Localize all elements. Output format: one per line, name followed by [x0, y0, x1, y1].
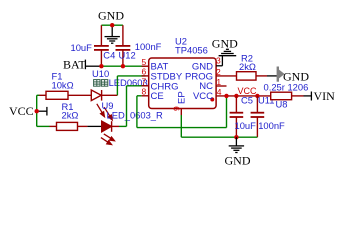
- svg-text:5: 5: [142, 57, 147, 67]
- wire U9 cathode to CHRG: [112, 125, 119, 127]
- junction bottom GND: [234, 135, 238, 139]
- svg-text:8: 8: [142, 87, 147, 97]
- svg-text:U12: U12: [119, 50, 136, 61]
- svg-text:GND: GND: [212, 36, 238, 50]
- svg-text:7: 7: [142, 77, 147, 87]
- junction BAT/C4: [99, 64, 103, 68]
- svg-text:1: 1: [216, 77, 221, 87]
- LED U10 arrows: [97, 104, 112, 120]
- svg-text:BAT: BAT: [63, 58, 86, 72]
- svg-text:9: 9: [172, 106, 182, 111]
- svg-text:4: 4: [217, 87, 222, 97]
- svg-text:LED_0603_R: LED_0603_R: [107, 109, 164, 120]
- svg-text:GND: GND: [225, 154, 251, 168]
- svg-text:3: 3: [216, 55, 221, 65]
- resistor F1: [46, 91, 68, 99]
- LED U10 (green): [91, 90, 101, 101]
- wire R1 to U9 (black): [87, 125, 101, 127]
- junction top gnd: [110, 23, 114, 27]
- label U10 value 绿色LED0603: [94, 80, 108, 87]
- svg-text:0.25r 1206: 0.25r 1206: [264, 81, 309, 92]
- pin 3 GND stub wire (black): [216, 65, 222, 67]
- svg-text:10uF: 10uF: [235, 120, 257, 131]
- resistor R2: [237, 72, 257, 80]
- svg-text:2kΩ: 2kΩ: [239, 61, 256, 72]
- svg-text:U8: U8: [276, 99, 288, 110]
- svg-text:100nF: 100nF: [258, 120, 285, 131]
- ground symbol bottom (earth): [229, 137, 244, 152]
- IC U2 TP4056 body: [149, 58, 216, 109]
- wire U10 cathode to STDBY: [102, 94, 118, 96]
- svg-text:VCC: VCC: [193, 91, 213, 102]
- capacitor U11 plates: [251, 112, 265, 114]
- capacitor U12 plates: [116, 45, 131, 47]
- junction VCC port: [35, 109, 39, 113]
- capacitor C5 plates: [230, 112, 244, 114]
- svg-text:EP: EP: [177, 91, 188, 104]
- pin 6 STDBY stub: [142, 75, 149, 77]
- pin 2 PROG wire: [216, 75, 236, 77]
- svg-text:VIN: VIN: [314, 89, 336, 103]
- wire BAT net: [100, 65, 146, 67]
- pin 5 BAT stub: [142, 65, 149, 67]
- junction VCC/U11: [255, 94, 259, 98]
- junction VCC pin dot: [210, 98, 214, 102]
- svg-text:VCC: VCC: [9, 104, 34, 118]
- pin 9 EP stub: [180, 109, 182, 116]
- svg-text:10kΩ: 10kΩ: [52, 80, 74, 91]
- ground symbol top (earth): [105, 25, 120, 43]
- resistor R1: [57, 122, 78, 130]
- capacitor U12 leads: [122, 25, 124, 45]
- junction VCC/CE: [224, 94, 228, 98]
- LED U9 arrows: [101, 134, 115, 145]
- svg-text:2: 2: [216, 67, 221, 77]
- port VIN: [310, 92, 312, 101]
- junction VCC/C5: [234, 94, 238, 98]
- pin 7 CHRG stub: [142, 85, 149, 87]
- svg-text:C4: C4: [103, 50, 115, 61]
- capacitor C4 leads: [100, 25, 102, 45]
- ground flag right (gray): [277, 67, 285, 82]
- svg-text:10uF: 10uF: [71, 42, 93, 53]
- pin 4 VCC wire: [216, 95, 271, 97]
- svg-text:6: 6: [142, 67, 147, 77]
- wire CE to VCC net: [137, 95, 142, 97]
- svg-text:100nF: 100nF: [135, 41, 162, 52]
- capacitor U11 leads: [256, 96, 258, 113]
- resistor U8: [271, 92, 292, 100]
- wire VCC vertical: [36, 95, 38, 126]
- junction BAT/U12: [121, 64, 125, 68]
- svg-text:2kΩ: 2kΩ: [62, 110, 79, 121]
- ground symbol pin3 (inverted earth): [219, 49, 237, 55]
- capacitor C4 plates: [94, 45, 109, 47]
- LED U9 (red, filled): [102, 121, 112, 132]
- svg-text:TP4056: TP4056: [175, 45, 208, 56]
- pin 8 CE stub: [142, 95, 149, 97]
- svg-text:C5: C5: [241, 95, 253, 106]
- svg-text:U10: U10: [92, 68, 109, 79]
- wire EP to GND: [180, 115, 182, 137]
- svg-text:GND: GND: [98, 9, 124, 23]
- svg-text:CE: CE: [151, 91, 164, 102]
- wire VCC to R1: [37, 125, 50, 127]
- pin 1 NC stub: [216, 85, 226, 87]
- capacitor C5 leads: [235, 96, 237, 113]
- wire top cap net horizontal: [101, 24, 123, 26]
